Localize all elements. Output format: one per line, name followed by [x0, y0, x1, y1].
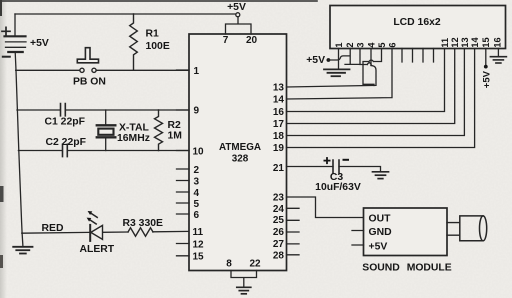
- resistor R2: [155, 110, 163, 151]
- svg-text:26: 26: [273, 227, 285, 238]
- wire XTAL top row (pin9): [17, 109, 189, 111]
- capacitor C1: [61, 104, 66, 116]
- battery BT1 +5V: [2, 27, 26, 56]
- svg-text:C1 22pF: C1 22pF: [45, 117, 85, 128]
- svg-text:1M: 1M: [168, 131, 182, 142]
- svg-text:16: 16: [492, 37, 502, 47]
- wire LED row to pin 11: [22, 231, 189, 233]
- svg-text:100E: 100E: [146, 41, 170, 52]
- svg-text:12: 12: [193, 239, 205, 250]
- svg-text:16: 16: [273, 107, 285, 118]
- svg-text:+5V: +5V: [30, 38, 49, 49]
- svg-text:+5V: +5V: [227, 2, 246, 13]
- U1 top +5V net pins 7,20: [226, 17, 252, 34]
- svg-text:4: 4: [366, 42, 376, 48]
- svg-text:1: 1: [334, 42, 344, 47]
- resistor R1: [130, 14, 138, 70]
- svg-text:ALERT: ALERT: [80, 244, 115, 255]
- svg-text:3: 3: [194, 177, 200, 188]
- svg-text:24: 24: [273, 204, 285, 215]
- LCD pin number labels 11-16: [440, 36, 503, 47]
- wire LCD pin16 stub: [497, 49, 499, 57]
- svg-text:328: 328: [232, 153, 249, 164]
- svg-text:23: 23: [273, 193, 285, 204]
- LCD module box: [330, 6, 506, 49]
- svg-text:4: 4: [194, 188, 200, 199]
- wire pin13 to LCD4: [287, 66, 377, 88]
- label C3 polarity: [324, 157, 350, 164]
- svg-text:2: 2: [345, 42, 355, 47]
- svg-text:LCD 16x2: LCD 16x2: [393, 17, 441, 28]
- svg-text:C2 22pF: C2 22pF: [46, 137, 86, 148]
- svg-text:25: 25: [273, 215, 285, 226]
- wire pin16 to LCD11: [287, 49, 445, 112]
- svg-text:13: 13: [273, 83, 285, 94]
- LCD pin number labels 1-6: [334, 42, 398, 48]
- svg-text:ATMEGA: ATMEGA: [219, 142, 261, 153]
- wire pin19 to LCD14: [287, 49, 475, 148]
- wire LCD pin5 to gnd bracket: [363, 49, 382, 86]
- U1 left pin stubs: [177, 70, 190, 256]
- svg-text:6: 6: [387, 42, 397, 47]
- U1 unconnected stubs pins 24-28: [287, 208, 300, 255]
- wire LCD pin4 stub: [370, 49, 372, 66]
- svg-text:11: 11: [193, 227, 204, 238]
- svg-text:27: 27: [273, 239, 285, 250]
- wire pin14 to LCD6: [287, 49, 393, 100]
- wire XTAL bottom row (pin10): [18, 150, 189, 152]
- svg-text:15: 15: [193, 251, 205, 262]
- LCD unconnected stubs pins 7-10: [402, 49, 434, 63]
- svg-text:7: 7: [223, 35, 229, 46]
- svg-text:2: 2: [194, 165, 200, 176]
- speaker body cylinder: [460, 216, 487, 241]
- svg-text:16MHz: 16MHz: [117, 133, 150, 144]
- ground LCD pin1: [324, 69, 350, 76]
- svg-text:3: 3: [355, 42, 365, 47]
- svg-text:OUT: OUT: [369, 214, 392, 225]
- ground C3: [373, 172, 389, 179]
- capacitor C3: [333, 160, 339, 173]
- svg-text:X-TAL: X-TAL: [119, 123, 149, 134]
- svg-text:10: 10: [193, 147, 205, 158]
- wire pin17 to LCD12: [287, 49, 455, 124]
- svg-text:28: 28: [273, 250, 285, 261]
- svg-text:1: 1: [194, 66, 200, 77]
- svg-text:5: 5: [377, 42, 387, 47]
- ground LCD pin16: [490, 57, 506, 63]
- node dot LCD pin15: [484, 65, 488, 69]
- svg-text:+5V: +5V: [306, 55, 325, 66]
- svg-text:18: 18: [273, 131, 285, 142]
- svg-text:14: 14: [470, 36, 480, 47]
- svg-text:15: 15: [481, 37, 491, 47]
- U1 left pin labels: [193, 66, 205, 262]
- wire pin18 to LCD13: [287, 49, 465, 136]
- svg-text:+5V: +5V: [369, 241, 388, 252]
- svg-text:6: 6: [194, 210, 200, 221]
- wire LCD pin3 stub: [360, 49, 367, 65]
- svg-text:11: 11: [440, 38, 450, 48]
- svg-text:21: 21: [273, 163, 285, 174]
- wire top rail: [15, 13, 236, 15]
- node dot +5V LCD: [327, 58, 331, 62]
- svg-text:5: 5: [194, 199, 200, 210]
- resistor R3: [128, 228, 153, 236]
- node +5V top circle: [236, 13, 240, 17]
- speaker neck: [447, 223, 460, 236]
- push button PB ON: [77, 48, 98, 73]
- wire pin21 to C3: [287, 166, 334, 168]
- wire C3 to ground: [339, 167, 381, 172]
- svg-text:22: 22: [249, 259, 261, 270]
- svg-text:R3 330E: R3 330E: [123, 218, 164, 229]
- sound module box: [364, 208, 448, 256]
- svg-text:19: 19: [273, 143, 285, 154]
- svg-text:10uF/63V: 10uF/63V: [315, 182, 361, 193]
- capacitor C2: [63, 144, 68, 156]
- IC U1 ATMEGA 328 box: [189, 34, 287, 271]
- wire LCD pin15 stub: [485, 49, 487, 65]
- svg-text:9: 9: [194, 105, 200, 116]
- svg-text:+5V: +5V: [482, 70, 493, 88]
- svg-text:SOUND MODULE: SOUND MODULE: [362, 263, 452, 274]
- wire PB row (pin1 reset): [16, 69, 189, 71]
- svg-text:20: 20: [246, 35, 258, 46]
- svg-text:12: 12: [450, 37, 460, 47]
- LED D1 RED: [87, 211, 103, 241]
- svg-text:8: 8: [226, 259, 232, 270]
- sound module pin stubs GND +5V: [352, 231, 364, 246]
- ground bottom-left: [13, 233, 32, 253]
- wire hop pin3 over pin4: [367, 63, 371, 65]
- crystal X1 16MHz: [97, 110, 116, 151]
- wire battery top to rail: [14, 14, 16, 36]
- wire pin23 to sound module OUT: [287, 197, 364, 218]
- svg-text:GND: GND: [369, 227, 393, 238]
- svg-text:14: 14: [273, 95, 285, 106]
- wire LCD pin1 to ground: [338, 49, 340, 69]
- U1 bottom ground net pins 8,22: [231, 271, 257, 294]
- svg-text:R2: R2: [168, 120, 182, 131]
- svg-text:R1: R1: [146, 29, 160, 40]
- svg-text:13: 13: [460, 37, 470, 47]
- U1 right pin labels: [273, 83, 285, 262]
- wire left bus: [15, 52, 22, 233]
- svg-text:PB ON: PB ON: [73, 77, 106, 88]
- svg-text:RED: RED: [42, 223, 64, 234]
- svg-text:17: 17: [273, 119, 285, 130]
- wire +5V to LCD pin2 with hop: [328, 49, 360, 65]
